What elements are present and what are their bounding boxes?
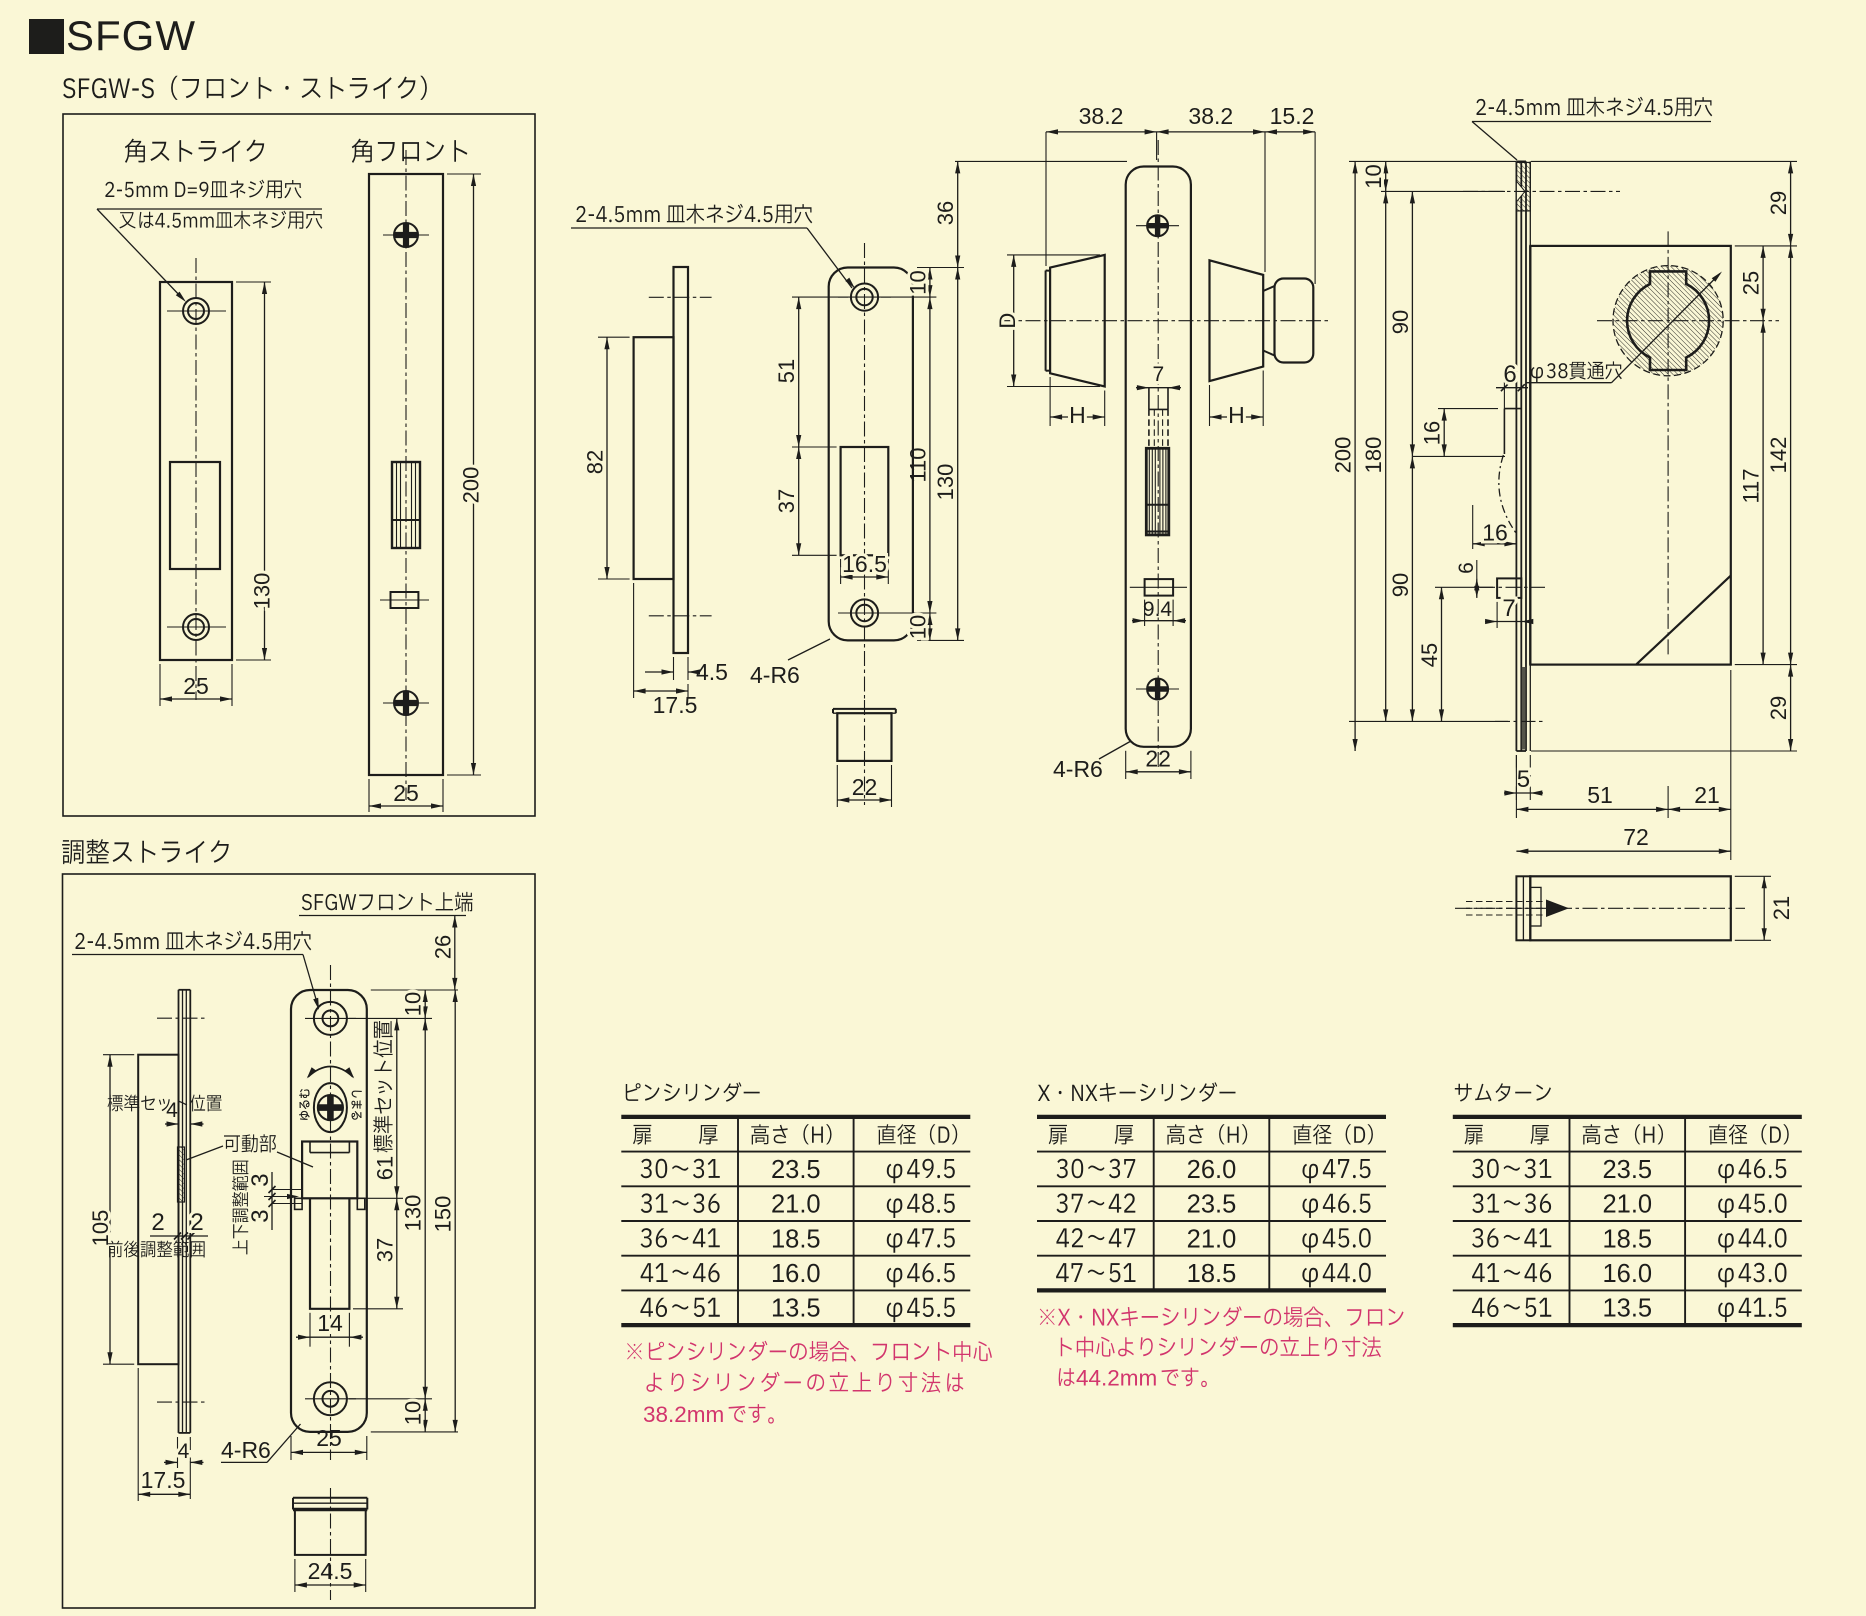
dim 72 [1516,850,1730,852]
dim 90 lower [1411,456,1413,721]
svg-text:117: 117 [1739,468,1764,503]
latchbolt centerline [1455,907,1745,909]
label yurumu [299,1089,310,1120]
svg-text:29: 29 [1766,696,1791,720]
svg-text:21.0: 21.0 [771,1191,821,1219]
svg-text:13.5: 13.5 [771,1295,821,1323]
label SFGW front top edge [302,892,473,912]
dim 25 extension lines [159,664,161,706]
box SFGW-S frame [63,114,535,816]
latch bolt section [1146,448,1169,535]
hub phi38 hole [1627,271,1709,370]
adj rotate arrow [308,1067,353,1078]
svg-text:36: 36 [933,201,958,225]
svg-text:10: 10 [401,1401,426,1425]
svg-text:90: 90 [1388,573,1413,597]
dim 130 ext mid [917,267,964,269]
svg-text:18.5: 18.5 [1602,1225,1652,1253]
note screw holes box2 [75,931,311,951]
top dim ext lines [1045,132,1047,266]
dim 51/21 ext [1515,755,1517,818]
lock case outline [1530,246,1731,665]
dim 4.5 ext [673,657,675,680]
dim 37 box2 [396,1198,398,1309]
svg-text:4-R6: 4-R6 [221,1437,271,1463]
svg-text:D: D [995,313,1020,329]
adj centermark bottom [157,1401,208,1403]
dim H left ext [1049,377,1051,426]
label kaku-strike [125,139,264,163]
adj screw top [314,1002,347,1035]
svg-text:25: 25 [393,780,419,806]
svg-text:25: 25 [1739,271,1764,295]
svg-text:44.2mm: 44.2mm [1076,1366,1157,1391]
svg-text:4-R6: 4-R6 [1053,756,1103,782]
adj plate centerline [330,965,332,1460]
strike screw hole bottom [183,614,209,640]
dim 4 top [165,1123,179,1125]
screw section hatched [1516,162,1530,211]
table header X・NXキーシリンダー [1049,1125,1067,1145]
svg-text:142: 142 [1766,437,1791,474]
note leader mid [807,228,852,288]
table row X・NXキーシリンダー 42～47 [1056,1228,1135,1247]
dim 150 [454,990,456,1432]
dim 21 latchbolt ext [1735,875,1771,877]
front plate centerline [405,150,407,800]
adj movable ears [295,1198,303,1209]
front trim hole [391,592,419,608]
svg-text:200: 200 [1331,437,1356,474]
svg-text:38.2: 38.2 [1079,103,1124,129]
side centermark bottom [649,615,712,617]
adj centermark top [157,1017,208,1019]
screw centerline right [1463,190,1620,192]
dim 29 bottom [1790,665,1792,751]
svg-text:25: 25 [183,673,209,699]
strike screw hole top [183,298,209,324]
table row ピンシリンダー 30～31 [641,1159,720,1179]
dim 37 ext [792,554,837,556]
note screw holes line1 [105,180,301,199]
dim 130 extension lines [236,281,271,283]
svg-text:2: 2 [190,1209,203,1236]
adj right ext [371,989,458,991]
dim 25 right [1762,246,1764,321]
dim 51 ext [792,296,848,298]
front plate outline [369,174,443,775]
dim 180 [1385,191,1387,721]
svg-text:17.5: 17.5 [653,692,698,718]
note underline mid [571,227,807,229]
note screw holes line2 [119,211,322,229]
adj side strip [178,990,180,1433]
table row サムターン 31～36 [1472,1193,1551,1213]
dim 10 bottom mid [929,613,931,640]
dim 6 vertical [1476,560,1478,578]
svg-text:105: 105 [88,1210,113,1247]
dim 22 ext [836,765,838,807]
svg-text:26: 26 [430,935,455,959]
svg-text:21.0: 21.0 [1187,1225,1237,1253]
dim 142 [1790,246,1792,665]
note xnx line1 [1040,1306,1404,1327]
svg-text:22: 22 [852,774,878,800]
svg-text:37: 37 [372,1238,397,1262]
right knob cone [1210,260,1264,381]
svg-text:2: 2 [151,1209,164,1236]
dim 105 ext [103,1054,134,1056]
svg-text:29: 29 [1766,191,1791,215]
left ext lines [1349,160,1516,162]
svg-text:4-R6: 4-R6 [750,662,800,688]
dim 2-2 [150,1235,208,1237]
svg-text:5: 5 [1517,766,1530,793]
adj movable narrow [310,1198,349,1309]
svg-text:10: 10 [905,270,930,294]
svg-text:16.5: 16.5 [842,551,887,577]
svg-text:6: 6 [1503,361,1516,388]
adj movable wide [302,1142,357,1199]
side centermark top [649,296,712,298]
svg-text:110: 110 [905,447,930,482]
dim 25 front ext [368,779,370,812]
dim 90 upper [1411,191,1413,456]
svg-text:130: 130 [401,1195,426,1232]
dim H right ext [1209,385,1211,426]
dim D ext [1007,254,1100,256]
adj side body [138,1055,178,1365]
plate latch opening [841,447,889,555]
dim 16 horizontal [1472,505,1474,549]
svg-text:18.5: 18.5 [1187,1260,1237,1288]
knob screw bottom [1147,679,1168,700]
table row サムターン 30～31 [1472,1159,1551,1179]
dim 25 box2 [290,1436,292,1460]
strike plate outline [160,282,232,660]
note leader box2 [303,955,318,1007]
adj cam oval [314,1083,347,1132]
svg-text:45: 45 [1417,643,1442,667]
left knob cone [1050,255,1105,387]
dim 51 [798,297,800,447]
dim 24.5 [294,1559,296,1592]
box chousei frame [63,874,536,1608]
dim 110 [929,297,931,613]
svg-text:21.0: 21.0 [1602,1191,1652,1219]
knob screw top [1147,215,1168,236]
dim 130 mid [957,268,959,641]
note pin-cylinder line2 [646,1373,662,1392]
note screw holes right [1476,97,1712,117]
svg-text:10: 10 [905,615,930,639]
dim 130 [264,282,266,660]
table row X・NXキーシリンダー 47～51 [1056,1263,1135,1282]
svg-text:21: 21 [1769,896,1794,920]
table title サムターン [1455,1083,1551,1101]
dim 26 [454,916,456,990]
case front wall [1529,161,1531,751]
svg-text:16: 16 [1420,421,1445,445]
note underline right [1472,121,1711,123]
dim 200 extension lines [447,173,481,175]
svg-text:82: 82 [583,450,608,474]
svg-text:4: 4 [166,1099,178,1122]
label hyoujun set posn left [108,1095,222,1112]
faceplate strip [1515,161,1517,751]
table row サムターン 46～51 [1472,1298,1551,1317]
rounded plate centerline [864,243,866,700]
dim 4 bottom [177,1437,179,1468]
svg-text:25: 25 [316,1425,342,1451]
svg-text:4: 4 [178,1440,190,1463]
svg-text:16.0: 16.0 [1602,1260,1652,1288]
dim 25 [160,698,232,700]
table title ピンシリンダー [626,1082,760,1102]
svg-text:21: 21 [1694,782,1720,808]
dim 16 vertical [1443,409,1445,457]
table header ピンシリンダー [633,1125,651,1145]
thumbturn knob [1275,279,1314,363]
svg-text:200: 200 [459,467,484,504]
dim H left [1050,416,1105,418]
adj slot hatched [178,1147,185,1202]
dim 21 [1668,808,1731,810]
svg-text:SFGW: SFGW [66,12,196,59]
label jouge chousei rotated [232,1161,249,1255]
svg-text:38.2: 38.2 [1188,103,1233,129]
svg-text:10: 10 [401,992,426,1016]
adj cup body [295,1510,366,1555]
dim 36 ext [955,160,1127,162]
top dim line 38.2/38.2/15.2 [1046,131,1315,133]
latch cup body [837,713,891,761]
table row ピンシリンダー 31～36 [641,1193,720,1213]
label shimaru [351,1091,362,1120]
svg-text:23.5: 23.5 [771,1156,821,1184]
svg-text:10: 10 [1361,164,1386,188]
table row サムターン 41～46 [1472,1263,1551,1282]
note pin-cylinder line1 [627,1341,992,1362]
title black square [29,19,64,54]
svg-text:9.4: 9.4 [1143,598,1173,621]
rounded plate outline [829,268,913,641]
front screw bottom [394,691,418,715]
note xnx line3 [1059,1368,1075,1386]
hub outer circle dashed [1613,266,1723,376]
strike latch opening [170,462,220,569]
dim 51 [1516,808,1668,810]
dim 10 top right-drawing [1385,161,1387,191]
cam dashed arc [1499,455,1516,533]
hub hatched disk [1613,266,1723,376]
svg-text:23.5: 23.5 [1187,1191,1237,1219]
dim 10 box2 top [424,990,426,1018]
latch hidden top [1148,388,1150,410]
note screw holes mid [576,204,812,224]
note xnx line2 [1061,1336,1381,1357]
dim 200 [473,174,475,775]
svg-text:13.5: 13.5 [1602,1295,1652,1323]
adj cup centerline [330,1488,332,1600]
latchbolt body [1530,876,1731,940]
svg-text:H: H [1228,402,1245,428]
dim 82 [606,337,608,579]
dim 14 [309,1313,311,1347]
dim 36 [957,161,959,267]
dim 45 [1441,587,1443,721]
dim 21 latchbolt [1763,876,1765,940]
right ext lines [1531,160,1797,162]
dim 7 line [1136,387,1181,389]
dim 110 ext [881,296,936,298]
table header サムターン [1465,1125,1483,1145]
plate screw bottom [851,599,878,626]
dim 22 [837,799,891,801]
dim 17.5 [634,690,688,692]
table frame ピンシリンダー [621,1115,970,1119]
front screw top [394,223,418,247]
table title X・NXキーシリンダー [1038,1082,1236,1102]
dim 4.5 [645,671,674,673]
svg-text:51: 51 [1587,782,1613,808]
svg-text:17.5: 17.5 [141,1467,186,1493]
dim 10 box2 bottom [424,1399,426,1432]
svg-text:18.5: 18.5 [771,1225,821,1253]
table row サムターン 36～41 [1472,1228,1551,1248]
dim H right [1210,416,1264,418]
adj cup flange [293,1497,367,1499]
trim hole center [1145,579,1174,596]
svg-text:7: 7 [1502,595,1515,622]
svg-text:61: 61 [372,1156,397,1180]
dim 6 horiz [1503,382,1505,409]
svg-text:37: 37 [774,489,799,513]
dim 25 front [369,805,443,807]
svg-text:23.5: 23.5 [1602,1156,1652,1184]
front latch detail [392,462,420,548]
svg-text:15.2: 15.2 [1270,103,1315,129]
latchbolt head [1516,876,1530,940]
dim 10 top mid [929,268,931,298]
label zengo chousei [108,1240,205,1257]
dim 3-3 [271,1172,273,1230]
label kadoubu [224,1134,276,1152]
svg-text:6: 6 [1455,562,1478,574]
svg-text:16.0: 16.0 [771,1260,821,1288]
dim 17.5 ext [633,583,635,698]
svg-text:26.0: 26.0 [1187,1156,1237,1184]
hub centerlines [1597,320,1779,322]
table frame X・NXキーシリンダー [1037,1115,1386,1119]
svg-text:38.2mm: 38.2mm [643,1402,724,1427]
svg-text:H: H [1069,402,1086,428]
knob plate centerline [1157,140,1159,770]
adj cam screw [318,1095,343,1120]
dim 17.5 box2 ext [137,1368,139,1501]
adj screw bottom [314,1382,347,1415]
table row ピンシリンダー 41～46 [641,1263,720,1282]
dim 16.5 [841,576,889,578]
dim 105 [109,1055,111,1365]
case diagonal [1636,576,1731,665]
dim 82 ext [598,336,630,338]
label chousei strike [62,839,229,864]
svg-text:4.5: 4.5 [696,659,728,685]
latch cup centerline [864,700,866,805]
svg-text:72: 72 [1623,824,1649,850]
table row ピンシリンダー 46～51 [640,1298,719,1317]
table row X・NXキーシリンダー 30～37 [1057,1159,1136,1179]
dim 29 top [1790,161,1792,246]
svg-text:51: 51 [774,359,799,383]
dim 7 right [1496,602,1498,628]
stop square [1497,578,1521,598]
dim 22 center [1126,771,1191,773]
svg-text:90: 90 [1388,310,1413,334]
svg-text:7: 7 [1153,363,1165,386]
table frame サムターン [1453,1115,1802,1119]
dim 37 [798,447,800,555]
bottom screw hole right [1522,667,1526,750]
dim 17.5 box2 [138,1493,190,1495]
svg-text:14: 14 [317,1310,343,1336]
plate screw top [851,284,878,311]
svg-text:180: 180 [1361,437,1386,474]
note leader right [1472,122,1517,161]
dim 9.4 [1132,620,1186,622]
dim 200 right-drawing [1354,161,1356,751]
dim 5 [1515,755,1517,800]
side view faceplate strip [674,267,689,653]
knob axis centerline [1000,320,1330,322]
cam solid edges [1503,409,1505,454]
table row X・NXキーシリンダー 37～42 [1056,1193,1135,1213]
svg-text:3: 3 [247,1173,274,1186]
strike plate centerline [195,258,197,700]
latch cup flange [833,708,896,710]
adj plate outline [291,990,367,1432]
knob plate outline [1126,167,1191,747]
svg-text:22: 22 [1145,746,1171,772]
svg-text:3: 3 [247,1209,274,1222]
dim 16.5 ext [840,559,842,584]
note underline [97,208,322,210]
side view case body [634,337,674,579]
dim D [1013,255,1015,387]
svg-text:130: 130 [933,464,958,501]
svg-text:16: 16 [1482,520,1508,546]
table row ピンシリンダー 36～41 [641,1228,720,1248]
subtitle SFGW-S (front/strike) [63,76,427,100]
latchbolt spring [1466,901,1545,903]
label phi38 through hole [1531,361,1622,382]
label kaku-front [352,139,468,163]
svg-text:130: 130 [250,573,275,610]
dim 130 box2 [424,1018,426,1398]
dim 22 center ext [1125,751,1127,779]
dim 117 [1762,321,1764,665]
svg-text:24.5: 24.5 [308,1558,353,1584]
dim 16 vertical ext [1438,408,1498,410]
svg-text:150: 150 [431,1196,456,1233]
dim 61 + set position [396,1018,398,1198]
note leader arrow [97,209,183,299]
